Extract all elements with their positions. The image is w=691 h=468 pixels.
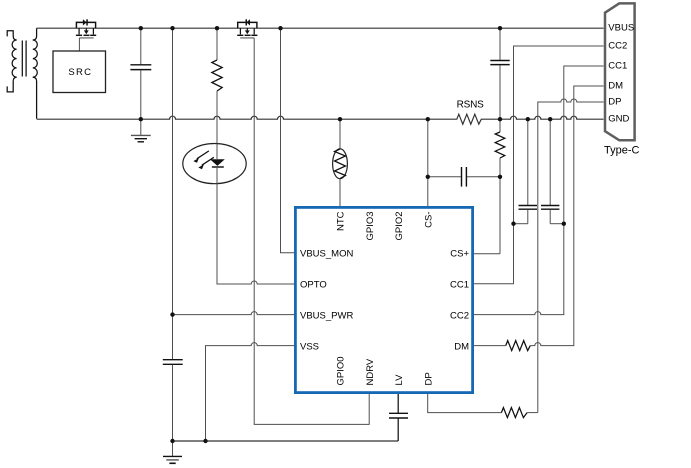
ground G1 — [131, 119, 151, 142]
wire VBUS_PWR horizontal — [173, 312, 296, 315]
svg-text:VBUS: VBUS — [608, 23, 634, 34]
svg-text:DP: DP — [608, 97, 621, 108]
svg-text:GPIO2: GPIO2 — [394, 212, 405, 241]
transformer T1 — [7, 28, 37, 118]
wire OPTO — [217, 184, 296, 284]
resistor R2 (CS+ filter) vertical — [495, 119, 505, 254]
capacitor C4 (VBUS) — [490, 28, 509, 119]
wire VSS — [206, 343, 296, 441]
thermistor NTC — [333, 119, 348, 207]
resistor R4 (DP series) — [428, 393, 538, 418]
svg-text:GPIO0: GPIO0 — [336, 356, 347, 385]
svg-text:RSNS: RSNS — [457, 99, 485, 110]
svg-text:CC1: CC1 — [608, 61, 627, 72]
wire net VBUS_PWR vertical — [172, 28, 174, 359]
wire top VBUS rail — [37, 27, 604, 29]
MOSFET Q2 — [237, 19, 257, 38]
svg-text:VSS: VSS — [300, 341, 319, 352]
svg-text:CC1: CC1 — [450, 280, 469, 291]
MOSFET Q1 — [76, 19, 96, 51]
capacitor C7 (LV) — [389, 393, 408, 442]
SRC block — [53, 51, 106, 93]
svg-text:CC2: CC2 — [450, 310, 469, 321]
svg-text:LV: LV — [394, 374, 405, 386]
capacitor C3 (CS filter) — [428, 167, 500, 187]
svg-text:NDRV: NDRV — [365, 358, 376, 385]
svg-text:DP: DP — [424, 372, 435, 385]
svg-text:Type-C: Type-C — [604, 145, 640, 157]
wire bottom ground rail — [173, 440, 399, 442]
optocoupler photodiode U2 — [183, 144, 246, 184]
resistor R1 vertical — [212, 28, 222, 143]
Type-C connector J1 — [604, 3, 640, 156]
svg-text:GPIO3: GPIO3 — [365, 212, 376, 241]
wire CS- — [427, 119, 429, 207]
svg-text:NTC: NTC — [336, 211, 347, 231]
svg-text:SRC: SRC — [68, 67, 92, 78]
svg-text:VBUS_PWR: VBUS_PWR — [300, 310, 353, 321]
capacitor C1 — [130, 28, 151, 119]
svg-text:GND: GND — [608, 114, 629, 125]
svg-text:CC2: CC2 — [608, 41, 627, 52]
wire mid GND rail — [37, 114, 604, 124]
svg-text:DM: DM — [608, 81, 623, 92]
capacitor C5 (CC line) — [514, 119, 538, 224]
wire NDRV gate net — [254, 38, 369, 425]
resistor R3 (DM series) — [473, 86, 604, 351]
capacitor C6 (CC line) — [541, 119, 564, 224]
wire CS+ — [473, 253, 501, 255]
svg-text:CS-: CS- — [424, 212, 435, 228]
svg-text:OPTO: OPTO — [300, 280, 327, 291]
svg-text:VBUS_MON: VBUS_MON — [300, 249, 353, 260]
ground G2 — [163, 441, 182, 463]
IC U1 — [295, 207, 472, 392]
svg-text:CS+: CS+ — [450, 249, 469, 260]
wire VBUS_MON — [281, 28, 296, 253]
wire DP vertical — [538, 99, 604, 413]
capacitor C2 — [163, 360, 183, 441]
wire CC2 to Type-C CC1 — [473, 66, 604, 315]
svg-text:DM: DM — [454, 341, 469, 352]
wire CC1 to Type-C CC2 — [473, 46, 604, 284]
